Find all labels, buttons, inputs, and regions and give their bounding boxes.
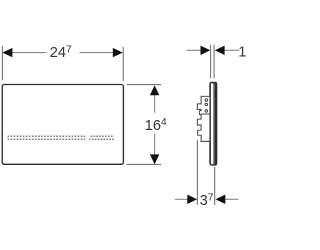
svg-text:1: 1	[238, 45, 246, 61]
svg-text:247: 247	[50, 44, 72, 61]
svg-text:164: 164	[145, 117, 167, 134]
svg-text:37: 37	[200, 192, 214, 209]
